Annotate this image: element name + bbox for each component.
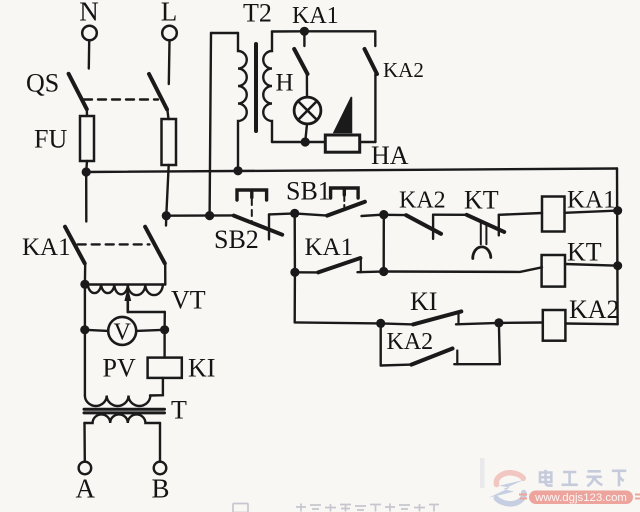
- svg-text:KT: KT: [567, 238, 602, 267]
- svg-text:KI: KI: [188, 353, 215, 382]
- wire KA2 to KT: [433, 213, 467, 216]
- svg-text:T: T: [171, 396, 187, 425]
- node KA1 selfhold right: [379, 267, 388, 276]
- svg-text:KI: KI: [410, 287, 437, 316]
- terminal A: [79, 462, 92, 475]
- wire row3 left segment: [295, 322, 381, 323]
- contact KA2 parallel blade: [411, 349, 452, 365]
- svg-text:KA1: KA1: [305, 234, 354, 261]
- node bus1/N: [82, 167, 91, 176]
- pushbutton SB1 cap: [331, 188, 359, 198]
- contact KA1 stub: [303, 31, 305, 46]
- node rail/KT: [613, 261, 622, 270]
- pushbutton SB2 blade: [234, 216, 282, 235]
- contact KT blade: [467, 215, 505, 232]
- wire coil KT to rail: [565, 264, 618, 266]
- svg-text:PV: PV: [103, 353, 136, 382]
- wire KA1 to lamp: [306, 74, 309, 96]
- KT delay arc: [473, 247, 491, 259]
- wire row2 left segment: [166, 214, 234, 217]
- node KA1 selfhold left: [290, 268, 299, 277]
- buzzer HA box: [325, 135, 359, 152]
- wire T left leg: [83, 423, 86, 462]
- buzzer HA flag: [334, 97, 352, 133]
- svg-text:FU: FU: [34, 125, 67, 154]
- wire FU1 to bus1: [85, 161, 88, 172]
- transformer T2 core bar: [254, 44, 258, 131]
- svg-text:QS: QS: [26, 68, 59, 97]
- contact KA2 parallel right stub: [456, 351, 458, 365]
- svg-text:KA2: KA2: [387, 329, 434, 355]
- svg-text:SB2: SB2: [214, 225, 259, 254]
- svg-text:www.dgjs123.com: www.dgjs123.com: [534, 492, 627, 504]
- switch QS pole 2 blade: [149, 74, 167, 109]
- contact KI right stub: [457, 312, 459, 324]
- wire KA1 selfhold right: [358, 270, 384, 273]
- node row3 right: [494, 318, 503, 327]
- svg-text:HA: HA: [371, 141, 409, 170]
- contact KA1 selfhold blade: [318, 258, 360, 272]
- variac VT scallops: [88, 285, 163, 296]
- terminal L: [162, 26, 177, 41]
- node lamp bottom: [301, 137, 310, 146]
- wire coil KA1 to rail: [565, 211, 618, 213]
- svg-text:KA1: KA1: [22, 234, 71, 261]
- contact KA1 blade (lamp): [294, 49, 307, 74]
- wire coil KA2 to rail: [565, 322, 617, 325]
- contact KT right stub: [498, 215, 500, 236]
- KA1 main linkage dashed: [78, 243, 150, 245]
- wire KA2 parallel up: [498, 323, 501, 364]
- VT wiper arrow: [127, 298, 130, 312]
- node rail/KA1: [613, 206, 622, 215]
- switch QS pole 1 blade: [69, 74, 87, 109]
- contact KI blade: [413, 311, 461, 324]
- svg-text:L: L: [161, 0, 178, 27]
- wire KI right: [456, 323, 499, 324]
- terminal B: [154, 462, 167, 475]
- watermark text 电工天下: [540, 470, 626, 487]
- wire KA2 parallel right: [454, 363, 500, 365]
- wire node to SB1: [295, 213, 327, 215]
- contact KA1 main blade left: [65, 227, 85, 264]
- svg-text:V: V: [114, 320, 132, 346]
- wire QS2 to FU2: [167, 108, 168, 119]
- wire QS1 to FU1: [86, 108, 89, 116]
- wire KA2 down: [374, 74, 376, 142]
- node bus1/T2 primary: [233, 166, 242, 175]
- svg-text:KA1: KA1: [292, 3, 339, 29]
- svg-text:T2: T2: [243, 0, 272, 28]
- contact KA2 NC blade: [406, 215, 441, 234]
- wire wiper right: [128, 311, 165, 313]
- wire node to KA2 contact: [384, 214, 406, 217]
- coil KA2: [543, 310, 566, 341]
- wire node down to KI coil: [163, 330, 165, 358]
- node row1/SB1: [290, 209, 299, 218]
- wire to KA1 selfhold blade: [295, 271, 318, 274]
- wire PV right: [136, 330, 164, 331]
- wire wiper down: [163, 312, 166, 330]
- QS linkage dashed: [84, 98, 158, 100]
- wire left vertical VT to T: [84, 284, 86, 395]
- lamp H: [294, 97, 321, 124]
- variac VT winding line: [85, 283, 165, 285]
- transformer T2 secondary coil: [263, 32, 272, 143]
- coil KT: [542, 255, 565, 287]
- wire node down to row2: [383, 215, 385, 272]
- fuse FU2 rect: [162, 119, 177, 165]
- relay KI coil: [148, 358, 182, 378]
- node VT left: [80, 280, 89, 289]
- svg-text:VT: VT: [171, 286, 206, 315]
- svg-text:KA2: KA2: [399, 188, 446, 214]
- KT delay stem: [480, 223, 482, 244]
- wire KI coil down: [150, 378, 163, 396]
- node lamp-branch top: [300, 27, 309, 36]
- wire bus1: [86, 169, 617, 173]
- wire L drop: [168, 41, 171, 85]
- wire KA1 right pole to VT: [164, 263, 167, 284]
- wire N branch down to KA1 main: [85, 172, 88, 222]
- wire T2 secondary top to node: [272, 30, 304, 33]
- scan edge smudge: [480, 458, 485, 488]
- svg-text:H: H: [276, 70, 294, 97]
- wire KA2 branch top: [304, 30, 375, 32]
- wire KA2 parallel bottom left: [381, 363, 412, 366]
- pushbutton SB1 blade: [327, 202, 365, 216]
- fuse FU1 rect: [80, 116, 94, 161]
- voltmeter PV: [108, 317, 136, 345]
- wire right rail: [616, 169, 619, 325]
- svg-text:KA2: KA2: [569, 295, 620, 324]
- wire KA1 left pole to VT: [84, 263, 87, 284]
- wire row3 to coil KA2: [499, 321, 543, 324]
- wire KT to coil KA1: [499, 213, 542, 215]
- terminal N: [82, 26, 97, 41]
- pushbutton SB2 right stub: [268, 214, 270, 239]
- wire lamp-circuit bottom: [272, 141, 325, 143]
- node row2/FU2: [162, 211, 171, 220]
- wire to HA: [360, 141, 376, 143]
- svg-text:KA2: KA2: [383, 58, 424, 82]
- watermark pill: [529, 491, 633, 505]
- caption (clipped at bottom edge): [233, 504, 439, 512]
- transformer T2 left vertical wire: [210, 33, 211, 216]
- transformer T2 primary coil: [238, 33, 247, 170]
- wire FU2 down crossing bus1 to node row2-left: [166, 165, 168, 216]
- svg-text:KA1: KA1: [567, 187, 616, 214]
- wire SB2 to node: [269, 213, 295, 214]
- node row3/KI: [376, 319, 385, 328]
- coil KA1: [542, 197, 565, 232]
- wire N drop: [88, 41, 91, 69]
- transformer T primary winding: [85, 396, 150, 407]
- node PV right: [160, 325, 169, 334]
- transformer T core bars: [84, 408, 165, 411]
- wire T right leg: [159, 423, 161, 462]
- transformer T secondary winding: [84, 414, 160, 423]
- watermark side dashes: [519, 495, 640, 499]
- node row1/KA2: [379, 210, 388, 219]
- wire row2 to coil KT: [384, 267, 542, 272]
- svg-text:N: N: [79, 0, 99, 27]
- wire SB1 to node: [362, 215, 384, 216]
- pushbutton SB1 dashed stem: [343, 196, 345, 207]
- contact KA1 main blade right: [145, 227, 165, 264]
- contact KA2 NC right stub: [432, 215, 434, 239]
- wire selfhold node down to row3: [294, 272, 297, 322]
- svg-text:SB1: SB1: [286, 177, 331, 206]
- node PV left: [80, 325, 89, 334]
- pushbutton SB2 cap: [237, 190, 267, 200]
- pushbutton SB2 dashed stem: [251, 199, 253, 222]
- watermark logo: [489, 473, 524, 504]
- wire lamp to bottom: [305, 124, 307, 142]
- svg-text:A: A: [76, 474, 96, 504]
- svg-text:B: B: [152, 474, 170, 504]
- svg-text:KT: KT: [464, 186, 499, 215]
- contact KA2 stub top: [374, 31, 376, 46]
- wire node to KI blade: [381, 323, 413, 324]
- wire row2-node down to KA1 right pole: [165, 216, 168, 226]
- wire KA2 parallel branch down: [380, 323, 382, 365]
- wire T2 top: [211, 32, 238, 34]
- wire SB1-node down to row KA1: [294, 213, 297, 272]
- contact KA2 blade (buzzer): [365, 49, 378, 74]
- node row2/T2-left: [205, 211, 214, 220]
- wire PV left: [85, 330, 108, 331]
- contact KA1 selfhold right stub: [360, 260, 362, 273]
